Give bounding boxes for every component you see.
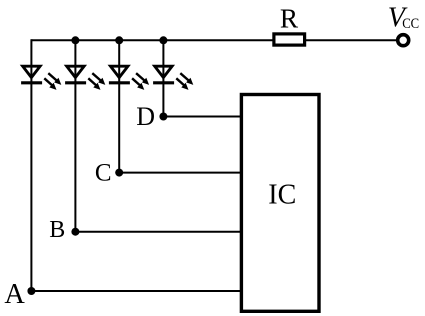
svg-text:D: D xyxy=(136,102,155,131)
svg-text:CC: CC xyxy=(402,16,419,32)
svg-text:R: R xyxy=(280,4,299,34)
svg-text:IC: IC xyxy=(268,179,296,210)
svg-text:C: C xyxy=(95,160,112,187)
svg-text:A: A xyxy=(4,279,25,310)
svg-text:B: B xyxy=(49,217,65,243)
